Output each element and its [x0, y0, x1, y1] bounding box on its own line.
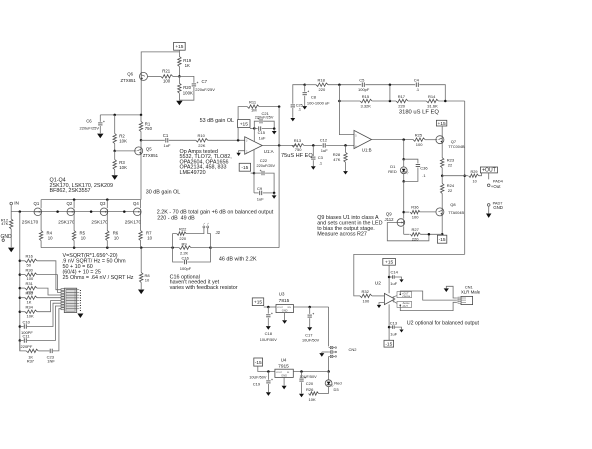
svg-text:IN: IN — [14, 201, 19, 207]
svg-text:1uF: 1uF — [259, 136, 266, 141]
wire C4 to rail — [419, 85, 445, 101]
+OUT box — [480, 167, 497, 173]
svg-text:2SK170: 2SK170 — [58, 220, 75, 225]
wire +15 to V+ node — [250, 127, 254, 129]
wire Q7 emitter to R23 — [441, 144, 443, 158]
wire R32 to U2 — [372, 295, 384, 297]
wire C12 to U1:B — [326, 144, 354, 146]
svg-text:1NF: 1NF — [47, 358, 55, 363]
svg-text:C4: C4 — [414, 77, 420, 82]
ground below C20 — [299, 394, 304, 398]
svg-text:C14: C14 — [391, 270, 399, 275]
svg-text:10K: 10K — [27, 313, 34, 318]
svg-text:46 dB with 2.2K: 46 dB with 2.2K — [219, 257, 257, 263]
resistor R32 — [360, 294, 372, 297]
svg-text:C20: C20 — [306, 381, 314, 386]
ground below header — [77, 314, 83, 319]
svg-text:ZTX851: ZTX851 — [121, 78, 137, 83]
capacitor C17 — [309, 307, 311, 314]
capacitor C3 — [312, 145, 314, 156]
wire R34 to header — [37, 301, 61, 312]
resistor R14 — [426, 99, 438, 102]
U4 ground pin — [283, 377, 285, 385]
svg-text:Q3: Q3 — [100, 201, 106, 206]
svg-text:2SK170: 2SK170 — [22, 220, 39, 225]
wire bus to feedback rail — [211, 247, 280, 249]
wire Q5 collector — [140, 140, 142, 146]
svg-text:PAD4: PAD4 — [493, 179, 504, 184]
wire U2 -OUT to XLR pin3 — [400, 302, 457, 310]
svg-text:Q1: Q1 — [34, 201, 40, 206]
svg-text:220PF: 220PF — [21, 344, 33, 349]
svg-text:220uF/25V: 220uF/25V — [195, 87, 215, 92]
svg-text:Q5: Q5 — [146, 146, 152, 151]
svg-text:R10: R10 — [198, 133, 206, 138]
ground below C17 — [307, 327, 312, 331]
resistor R31 — [20, 287, 25, 289]
ground for C14 — [399, 279, 403, 282]
capacitor C14 — [389, 276, 392, 278]
resistor R36 — [404, 211, 410, 213]
U2 +OUT pin box — [397, 292, 412, 298]
U2 output cross wires — [393, 294, 401, 297]
ground below R12 — [8, 248, 14, 253]
svg-text:53 dB gain OL: 53 dB gain OL — [200, 118, 234, 124]
svg-text:R22: R22 — [179, 227, 187, 232]
power -15 box U2 — [384, 340, 394, 347]
wire to Q5 base — [115, 150, 137, 152]
LED D1 — [403, 159, 405, 167]
svg-text:R25: R25 — [415, 132, 423, 137]
resistor R10 — [196, 139, 208, 142]
wire Q5 emitter to input stage drain bus — [140, 155, 142, 199]
node EQ A1 — [338, 83, 341, 86]
svg-text:varies with feedback resistor: varies with feedback resistor — [170, 285, 238, 291]
svg-text:C13: C13 — [390, 320, 398, 325]
capacitor C13 — [389, 326, 392, 328]
svg-text:10UF/50V: 10UF/50V — [302, 339, 320, 343]
svg-text:10UF/50V: 10UF/50V — [260, 338, 278, 342]
ground below C3 — [311, 166, 316, 169]
U1:A non-inverting input ground — [239, 151, 245, 153]
op-amp U1:A — [245, 137, 263, 154]
svg-text:10: 10 — [114, 235, 119, 240]
svg-text:R29: R29 — [471, 170, 478, 174]
wire R25 to Q7 base — [425, 139, 437, 141]
svg-text:R21: R21 — [162, 69, 170, 74]
connector CN2 — [329, 347, 331, 349]
resistor R17 — [396, 99, 408, 102]
transistor Q6 — [140, 72, 148, 80]
svg-text:10UF/50V: 10UF/50V — [249, 375, 267, 379]
capacitor C11 — [20, 340, 24, 342]
resistor R8 — [140, 248, 142, 273]
svg-text:25 Ohms = .64 nV / SQRT Hz: 25 Ohms = .64 nV / SQRT Hz — [63, 275, 134, 281]
transistor Q7 — [436, 136, 444, 144]
capacitor C1 — [165, 138, 167, 142]
transistor Q8 — [436, 208, 444, 216]
svg-text:BF862, 2SK3557: BF862, 2SK3557 — [50, 188, 91, 194]
svg-text:R13: R13 — [294, 138, 302, 143]
output rail — [464, 101, 466, 254]
wire R21 to node — [173, 75, 180, 77]
header dashed return — [79, 290, 81, 312]
U2 V- pin — [388, 304, 390, 340]
svg-text:10: 10 — [48, 235, 53, 240]
wire -15 to V- node — [251, 172, 254, 174]
svg-text:C17: C17 — [305, 332, 313, 337]
svg-text:3180 uS LF EQ: 3180 uS LF EQ — [399, 110, 439, 116]
svg-text:2SK170: 2SK170 — [91, 220, 108, 225]
svg-text:-15: -15 — [241, 165, 248, 171]
svg-text:R16: R16 — [26, 254, 34, 259]
svg-text:220uF/25V: 220uF/25V — [255, 116, 274, 120]
svg-text:R36: R36 — [411, 205, 419, 210]
node R11 feedback / input — [237, 139, 240, 142]
svg-text:Measure across R27: Measure across R27 — [317, 232, 367, 238]
resistor R4 — [40, 215, 42, 231]
svg-text:220uF/25V: 220uF/25V — [80, 126, 100, 131]
capacitor C20 — [301, 372, 303, 378]
U1:A V+ pin — [253, 128, 255, 141]
svg-text:C11: C11 — [23, 334, 31, 339]
resistor R15 — [360, 99, 372, 102]
svg-text:R31: R31 — [26, 281, 34, 286]
svg-text:10: 10 — [147, 235, 152, 240]
JFET Q3 — [106, 200, 108, 209]
resistor R26 — [309, 392, 319, 395]
svg-text:7815: 7815 — [279, 298, 290, 304]
ground below C19 — [266, 392, 271, 396]
input terminal IN — [10, 202, 13, 205]
svg-text:7915: 7915 — [278, 363, 289, 369]
ladder bus — [19, 212, 21, 351]
svg-text:U1:A: U1:A — [264, 149, 274, 154]
U1:B output wire — [372, 139, 414, 141]
capacitor C21 decoupling — [254, 121, 259, 128]
svg-text:100-1000 uF: 100-1000 uF — [307, 100, 330, 105]
svg-text:100K: 100K — [183, 90, 193, 95]
svg-text:+15: +15 — [175, 44, 183, 50]
svg-text:220: 220 — [398, 103, 405, 108]
resistor R20 — [178, 76, 180, 83]
capacitor C9 decoupling — [253, 173, 255, 193]
resistor R25 — [413, 138, 425, 141]
JFET Q9 — [397, 219, 405, 227]
svg-text:R15: R15 — [362, 94, 370, 99]
svg-text:220 - dB 49 dB: 220 - dB 49 dB — [157, 215, 195, 221]
power +15 box U2 — [383, 258, 396, 265]
node EQ A2 — [389, 83, 392, 86]
wire +15 to R19 — [178, 50, 180, 56]
svg-text:220: 220 — [319, 87, 326, 92]
wire R36 to Q8 base — [420, 211, 436, 213]
resistor R27 — [404, 233, 410, 235]
svg-text:100pF: 100pF — [180, 266, 192, 271]
wire R1 node to C1 — [141, 139, 165, 141]
Q9 gate loop — [387, 223, 429, 241]
svg-text:C19: C19 — [253, 382, 261, 387]
wire EQ row A left / C25 — [293, 85, 305, 104]
power +15 box Q7 — [436, 120, 446, 126]
svg-text:-15: -15 — [385, 341, 392, 347]
svg-text:10K: 10K — [119, 138, 127, 143]
svg-text:1K: 1K — [185, 63, 190, 68]
svg-text:1uF: 1uF — [321, 148, 328, 153]
wire R10 to U1:A inverting input — [208, 139, 245, 141]
output node — [441, 174, 444, 177]
resistor R24 — [441, 176, 443, 184]
resistor R1 — [140, 115, 142, 122]
svg-text:1uF: 1uF — [257, 196, 264, 201]
U1:A output wire — [262, 144, 296, 146]
pad PAD4 — [488, 173, 490, 179]
op-amp U2 — [384, 293, 394, 304]
svg-text:C1: C1 — [163, 133, 169, 138]
resistor R33 — [20, 297, 25, 299]
wire R13 to C12 — [304, 144, 322, 146]
capacitor C15 decoupling — [254, 128, 257, 130]
svg-text:1uF: 1uF — [390, 331, 397, 336]
ground below R20 — [176, 101, 182, 106]
wire +15 to Q7 — [441, 126, 443, 135]
svg-text:GND: GND — [282, 309, 288, 313]
wire R30 to header — [37, 275, 61, 293]
node R19/R21/R20/C7 — [178, 75, 181, 78]
svg-text:U1:B: U1:B — [362, 148, 372, 153]
ground for C21/C15 — [273, 129, 275, 131]
LED D3 — [328, 372, 330, 380]
svg-text:U3: U3 — [279, 291, 285, 296]
wire R33 to header — [37, 297, 61, 299]
svg-text:30 dB gain OL: 30 dB gain OL — [146, 190, 180, 196]
svg-text:220uF/25V: 220uF/25V — [257, 164, 276, 168]
wire rail to R32 — [354, 254, 465, 296]
resistor R11 feedback — [238, 107, 247, 141]
resistor R7 — [140, 215, 142, 231]
XLR pin1 ground — [446, 286, 457, 298]
svg-text:R33: R33 — [26, 291, 34, 296]
resistor R2 — [114, 115, 116, 134]
resistor R37 — [20, 341, 27, 351]
svg-text:C18: C18 — [265, 331, 273, 336]
U1:A V- pin — [253, 150, 255, 173]
transistor Q5 — [135, 147, 143, 155]
wire Q9 source to R27 — [403, 226, 405, 234]
svg-text:J2: J2 — [216, 230, 221, 235]
svg-text:1uF: 1uF — [390, 281, 397, 286]
wire U2 +OUT to XLR pin2 — [400, 291, 457, 300]
svg-text:VIN: VIN — [287, 307, 291, 309]
wire D1 to R36 node — [403, 181, 405, 218]
svg-text:U2 optional for balanced outpu: U2 optional for balanced output — [407, 320, 480, 326]
ground below R28 — [343, 171, 348, 174]
feedback rail to R9 network — [278, 107, 280, 248]
capacitor C23 — [38, 350, 49, 352]
EQ row B — [339, 100, 360, 102]
svg-text:U2: U2 — [375, 280, 381, 286]
power +15 box U1:A — [238, 120, 250, 128]
svg-text:TTC004B: TTC004B — [448, 145, 465, 149]
capacitor C16 — [173, 248, 184, 262]
svg-text:C12: C12 — [320, 138, 328, 143]
svg-text:R32: R32 — [362, 289, 370, 294]
capacitor C5 — [361, 83, 363, 87]
pad PAD7 ground — [487, 204, 490, 207]
svg-text:C6: C6 — [86, 119, 92, 124]
svg-text:10: 10 — [81, 235, 86, 240]
svg-text:10UF/50V: 10UF/50V — [300, 375, 318, 379]
resistor R12 — [10, 212, 12, 219]
capacitor C36 — [404, 159, 418, 163]
svg-text:R18: R18 — [318, 77, 326, 82]
svg-text:CN2: CN2 — [349, 347, 358, 352]
wire U4 to CN2 node — [293, 371, 328, 373]
svg-text:C3: C3 — [318, 155, 324, 160]
svg-text:Q8: Q8 — [450, 202, 456, 207]
svg-text:D3: D3 — [334, 387, 340, 392]
drain bus — [41, 199, 141, 201]
wire C10 to header — [27, 303, 61, 326]
wire Q6 emitter rail — [140, 81, 142, 115]
svg-text:+15: +15 — [385, 260, 393, 266]
svg-text:R26: R26 — [306, 387, 314, 392]
svg-text:C8: C8 — [311, 95, 317, 100]
source bus — [41, 247, 179, 249]
resistor R16 — [20, 260, 25, 262]
capacitor C22 decoupling — [254, 172, 261, 174]
svg-text:100: 100 — [363, 298, 370, 303]
svg-text:+Out: +Out — [491, 184, 501, 189]
resistor R21 — [161, 75, 173, 78]
resistor R34 — [20, 311, 25, 313]
capacitor C6 — [99, 115, 101, 122]
capacitor C7 branch — [179, 76, 194, 82]
svg-text:R14: R14 — [428, 94, 436, 99]
ground below C8 — [302, 106, 307, 109]
U2 -OUT pin box — [397, 301, 412, 307]
svg-text:J112: J112 — [385, 217, 395, 222]
wire +15 to U3 — [264, 306, 276, 308]
svg-text:+15: +15 — [254, 299, 262, 305]
svg-text:XLR Male: XLR Male — [461, 290, 481, 295]
svg-text:-OUT: -OUT — [402, 305, 408, 308]
svg-text:+Sense: +Sense — [402, 295, 411, 298]
svg-text:.1: .1 — [298, 107, 301, 111]
wire R16 to header — [37, 261, 61, 290]
resistor R28 — [345, 145, 347, 152]
resistor R5 — [73, 215, 75, 231]
svg-text:ZTX851: ZTX851 — [143, 153, 159, 158]
power -15 box U1:A — [239, 163, 250, 171]
JFET Q2 — [73, 200, 75, 209]
svg-text:+15: +15 — [438, 121, 446, 127]
header connector J1 — [64, 288, 76, 312]
svg-text:750: 750 — [145, 126, 153, 131]
resistor R6 — [106, 215, 108, 231]
op-amp U1:B — [354, 130, 372, 148]
jumper J2 — [186, 228, 204, 234]
power +15 box (top left) — [174, 42, 186, 50]
capacitor C18 — [267, 307, 269, 314]
svg-text:220: 220 — [179, 236, 186, 241]
svg-text:R20: R20 — [183, 85, 191, 90]
U2 V+ pin — [388, 265, 390, 293]
ground below C18 — [266, 326, 271, 330]
capacitor C4 — [415, 83, 417, 87]
wire Q6 base to R21 — [148, 75, 161, 77]
svg-text:22: 22 — [448, 162, 453, 167]
resistor R13 — [292, 144, 304, 147]
power -15 box Q8 — [437, 235, 446, 243]
svg-text:-15: -15 — [439, 237, 446, 243]
svg-text:+15: +15 — [240, 121, 248, 127]
gate bus — [11, 211, 133, 213]
svg-text:100: 100 — [412, 215, 419, 220]
wire -15 to U4 — [258, 366, 275, 371]
capacitor C12 — [322, 143, 324, 147]
svg-text:10: 10 — [145, 277, 150, 282]
svg-text:+OUT: +OUT — [482, 168, 496, 174]
wire IN to gate bus — [10, 205, 12, 212]
ground for C13 — [399, 330, 403, 333]
ground below C6 — [97, 134, 103, 139]
wire C23 to header — [53, 309, 61, 351]
svg-text:GND: GND — [493, 205, 503, 210]
svg-text:R30: R30 — [26, 267, 34, 272]
resistor R30 — [20, 274, 25, 276]
svg-text:R27: R27 — [412, 227, 420, 232]
wire output node to R29 — [442, 175, 468, 177]
svg-text:Red: Red — [334, 381, 341, 386]
svg-text:LME49720: LME49720 — [180, 170, 206, 176]
svg-text:750: 750 — [295, 147, 302, 152]
wire C11 to header — [27, 306, 61, 341]
ground for C22/C9 — [273, 193, 275, 195]
wire C1 to R10 — [169, 139, 196, 141]
resistor R22 jumper branch — [173, 234, 177, 248]
svg-text:22: 22 — [448, 188, 453, 193]
top bus C6-R1 — [100, 114, 141, 116]
svg-text:GND: GND — [281, 373, 287, 377]
vertical link EQ rows — [389, 85, 391, 101]
wire R19 to node — [178, 67, 180, 77]
wire Q6 collector to +15 rail — [141, 52, 179, 72]
capacitor C8 — [303, 83, 306, 86]
wire CN2 to U4 node — [328, 356, 330, 371]
svg-text:Q2: Q2 — [67, 201, 73, 206]
ground below R3 — [112, 175, 118, 180]
svg-text:3.32K: 3.32K — [361, 103, 372, 108]
wire U1:B output to D1 — [403, 140, 405, 160]
capacitor C25 — [291, 104, 295, 106]
svg-text:C22: C22 — [260, 158, 268, 163]
svg-text:C16: C16 — [182, 255, 190, 260]
power -15 box U4 — [254, 358, 263, 366]
resistor R19 — [178, 57, 181, 67]
svg-text:10: 10 — [473, 180, 477, 184]
svg-text:47K: 47K — [333, 157, 340, 162]
U3 ground pin — [284, 313, 286, 320]
ground below R8 — [138, 290, 144, 295]
svg-text:RED: RED — [388, 169, 397, 174]
svg-text:Q7: Q7 — [451, 139, 457, 144]
svg-text:C36: C36 — [420, 165, 428, 170]
svg-text:R34: R34 — [26, 305, 34, 310]
svg-text:TTA004B: TTA004B — [448, 211, 464, 215]
resistor R18 — [305, 84, 316, 86]
resistor R29 — [469, 174, 479, 177]
